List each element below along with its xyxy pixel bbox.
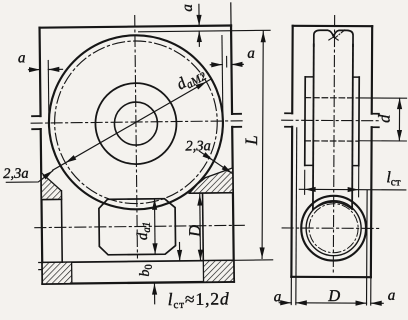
left joint tab [32,116,41,129]
hub circle [95,83,177,165]
leader 2,3a right [199,151,232,174]
rim gorge arc [313,202,352,210]
dimension l_st line and arrows [299,187,406,193]
bore hidden line bottom [305,140,359,142]
right wall top extension [230,3,232,26]
top tangent extension line [139,30,270,31]
svg-text:a: a [247,46,255,62]
svg-text:d: d [374,114,393,123]
right joint tab [232,114,241,127]
dimension a top: lines and arrows [196,4,202,46]
right view right wall outer [371,26,372,277]
right view worm axis centerline [282,227,379,230]
worm outline (chamfered barrel) [99,199,176,255]
bottom extension lines [291,277,371,305]
b0 auxiliary down arrow [177,242,182,260]
rim crest right bump [333,30,353,46]
left wall inner column line [60,191,63,262]
dimension l_st extension lines [305,165,359,196]
wheel pitch circle (dash-dot) [54,40,218,204]
svg-text:D: D [185,225,204,238]
worm outer circle [301,196,366,261]
right view wheel axis centerline [282,119,379,122]
left corner wedge (hatched) [41,172,61,199]
dimension d_a1 line and arrows [152,199,158,255]
right view right joint tab [372,114,379,128]
right corner wedge (hatched) [189,168,233,193]
wheel rim right side line [351,45,354,209]
right wall inner column line [202,193,205,261]
worm pitch circle dash-dot [309,204,358,253]
hub top shoulders [305,76,359,78]
hub length note leader arrow [152,284,157,304]
rim crest flare right [334,37,339,40]
svg-text:a: a [18,50,26,66]
right view left wall inner [295,128,298,277]
dimension a left: lines and arrows [28,67,62,73]
right wedge bottom line [189,192,232,194]
worm axis centerline [35,225,244,227]
svg-text:a: a [180,4,196,12]
svg-text:2,3a: 2,3a [185,138,211,154]
left foot section (hatched) [42,262,72,284]
right view vertical centerline [333,16,334,273]
dimension d_aM2 diagonal line [51,79,212,170]
floor line ticks outside left wall [39,262,43,269]
wheel outer circle [48,34,224,210]
worm inner circle [306,201,361,256]
wheel vertical centerline [135,16,138,258]
hub left side line [304,77,306,165]
dimension a right: inner short line [226,56,228,66]
right view bottom edge [291,276,370,279]
right view left joint tab [285,113,292,127]
wheel rim left side line [312,44,315,209]
housing floor line [42,260,233,262]
crest diagonal dash-dot [336,30,345,38]
housing bottom edge [42,282,233,284]
dimension d extension lines [359,98,407,141]
dimension D line and arrows [197,195,203,261]
hub right side line [358,77,360,165]
dimension a left: extension line [47,60,50,118]
dimension a right: lines and arrows [210,62,243,68]
svg-text:a: a [388,288,396,304]
svg-text:2,3a: 2,3a [3,166,29,182]
dimension d line and arrows [397,98,402,141]
leader 2,3a left [6,171,53,183]
housing top edge [40,26,231,28]
rim crest left bump [314,30,334,46]
housing right wall [231,26,234,282]
floor extension line [234,259,273,261]
bore circle [114,102,157,145]
bore hidden line top [305,97,359,99]
right foot section (hatched) [203,260,234,282]
left wedge bottom line [41,198,61,200]
right view left wall outer [291,26,292,277]
right view right wall inner [366,190,368,277]
svg-text:a: a [274,289,282,305]
dimension L line and arrows [259,31,265,258]
dimension D right view line and arrows [296,300,367,306]
housing left wall [40,28,43,284]
svg-text:D: D [327,286,340,305]
dimension a bottom-left arrow [279,300,291,305]
wheel horizontal centerline [31,121,245,123]
dimension a bottom-right arrow [371,301,384,306]
hub bottom shoulders [305,164,359,166]
dimension a right: tangent extension line [221,36,224,120]
rim crest flare left [329,37,334,40]
right view top edge [293,25,372,28]
svg-text:L: L [241,135,261,146]
